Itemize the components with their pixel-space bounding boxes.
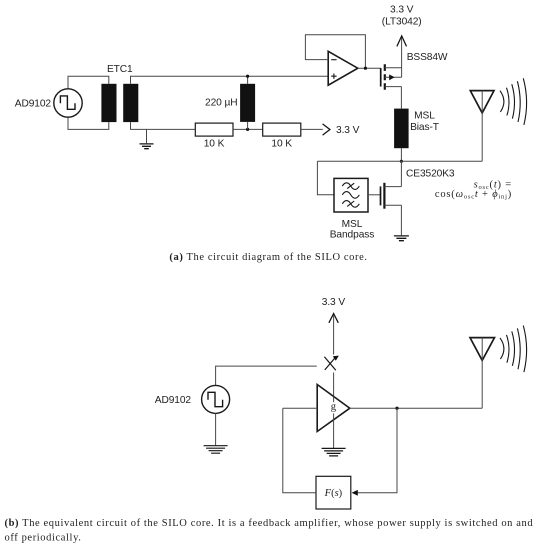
svg-text:CE3520K3: CE3520K3	[406, 169, 455, 180]
label MSL Bandpass	[330, 219, 375, 241]
ground (AD9102 b)	[204, 446, 228, 454]
label MSL Bias-T	[410, 110, 439, 133]
resistor 10K (left)	[195, 123, 233, 136]
wire: secondary bottom rail to resistor	[131, 122, 196, 129]
arrow 3.3V rail (open head)	[323, 124, 330, 135]
svg-text:10 K: 10 K	[271, 139, 292, 150]
svg-text:BSS84W: BSS84W	[407, 52, 448, 63]
svg-text:(LT3042): (LT3042)	[382, 17, 422, 28]
junction dot (op-amp output)	[364, 67, 367, 70]
inductor 220 uH	[240, 76, 255, 129]
Bias-T MSL (black block)	[394, 109, 409, 149]
junction dot (inductor bottom node)	[246, 128, 249, 131]
wire: switch to amplifier supply	[333, 373, 335, 397]
svg-text:cos(ωosct + ϕinj): cos(ωosct + ϕinj)	[435, 189, 512, 201]
amplifier g	[317, 385, 350, 432]
source AD9102 (square-wave generator)	[54, 89, 82, 117]
wire: op-amp output to BSS84W gate	[358, 67, 381, 69]
svg-text:(a) The circuit diagram of the: (a) The circuit diagram of the SILO core…	[169, 252, 367, 263]
ground (transformer secondary)	[140, 129, 154, 148]
radio waves (a)	[500, 78, 527, 125]
antenna (b)	[470, 338, 495, 409]
block F(s)	[316, 476, 351, 509]
svg-text:Bandpass: Bandpass	[330, 230, 375, 241]
resistor 10K (right)	[263, 123, 301, 136]
svg-text:220 µH: 220 µH	[205, 97, 237, 108]
wire: secondary top rail to op-amp + input	[131, 76, 329, 84]
svg-text:3.3 V: 3.3 V	[390, 5, 414, 16]
wire: CE3520K3 drain up to node	[400, 161, 402, 186]
wire: amplifier output to antenna feed	[350, 407, 482, 409]
arrow 3.3V LT3042 supply head	[397, 36, 407, 47]
svg-text:MSL: MSL	[342, 219, 363, 230]
wire: CE3520K3 source down to ground	[400, 205, 402, 235]
wire: bandpass output to CE3520K3 gate	[368, 194, 381, 196]
wire: AD9102 to transformer primary top	[68, 76, 109, 89]
wire: F(s) output back to amplifier input	[283, 408, 316, 493]
wire: AD9102 (b) to ground	[215, 413, 217, 445]
transistor BSS84W (PMOS)	[381, 64, 402, 89]
wire: output node down to F(s) input with arrowhead	[352, 408, 397, 496]
svg-text:F(s): F(s)	[324, 488, 343, 499]
junction dot (amp output)	[395, 407, 398, 410]
op-amp U1	[328, 51, 358, 85]
ground (amplifier)	[322, 448, 346, 456]
radio waves (b)	[500, 326, 527, 373]
svg-text:MSL: MSL	[414, 110, 435, 121]
wire: drain node rail to antenna feed	[317, 160, 482, 162]
filter MSL Bandpass	[334, 178, 368, 212]
svg-text:AD9102: AD9102	[15, 98, 52, 109]
svg-text:AD9102: AD9102	[155, 395, 192, 406]
chopper switch X	[324, 356, 338, 371]
svg-text:10 K: 10 K	[204, 139, 225, 150]
label 3.3 V (LT3042)	[382, 5, 422, 28]
wire: Bias-T to drain node	[400, 148, 402, 161]
svg-text:ETC1: ETC1	[107, 64, 133, 75]
wire: amplifier input	[283, 407, 317, 409]
wire: AD9102 to transformer primary bottom	[68, 117, 109, 129]
source AD9102 (b)	[202, 385, 230, 413]
wire: resistor to 3.3V arrow	[301, 128, 323, 130]
transistor CE3520K3 (FET)	[381, 183, 402, 209]
junction dot (inductor top node)	[246, 75, 249, 78]
junction dot (drain node)	[400, 160, 403, 163]
wire: amplifier bottom to ground	[333, 420, 335, 448]
wire between resistors	[233, 128, 263, 130]
wire: BSS84W source/body to 3.3V supply	[401, 38, 403, 78]
wire: AD9102 (b) to switch	[216, 366, 317, 385]
wire: BSS84W drain to Bias-T	[400, 87, 402, 109]
svg-text:g: g	[331, 402, 337, 413]
wire: node down to bandpass input	[317, 161, 334, 195]
ground (CE3520K3 source)	[394, 236, 409, 241]
svg-text:3.3 V: 3.3 V	[322, 297, 346, 308]
svg-text:3.3 V: 3.3 V	[336, 125, 360, 136]
svg-text:off periodically.: off periodically.	[5, 532, 82, 543]
wire: 3.3V down to chopper switch	[333, 315, 335, 354]
arrow 3.3V supply head (b)	[329, 314, 338, 323]
svg-text:(b) The equivalent circuit of: (b) The equivalent circuit of the SILO c…	[5, 518, 534, 529]
transformer ETC1 secondary winding	[123, 84, 138, 122]
wire: op-amp feedback loop	[305, 35, 365, 68]
antenna (a)	[470, 91, 494, 162]
transformer ETC1 primary winding	[101, 84, 116, 122]
label s_osc(t) equation	[435, 179, 512, 200]
svg-text:Bias-T: Bias-T	[410, 122, 439, 133]
